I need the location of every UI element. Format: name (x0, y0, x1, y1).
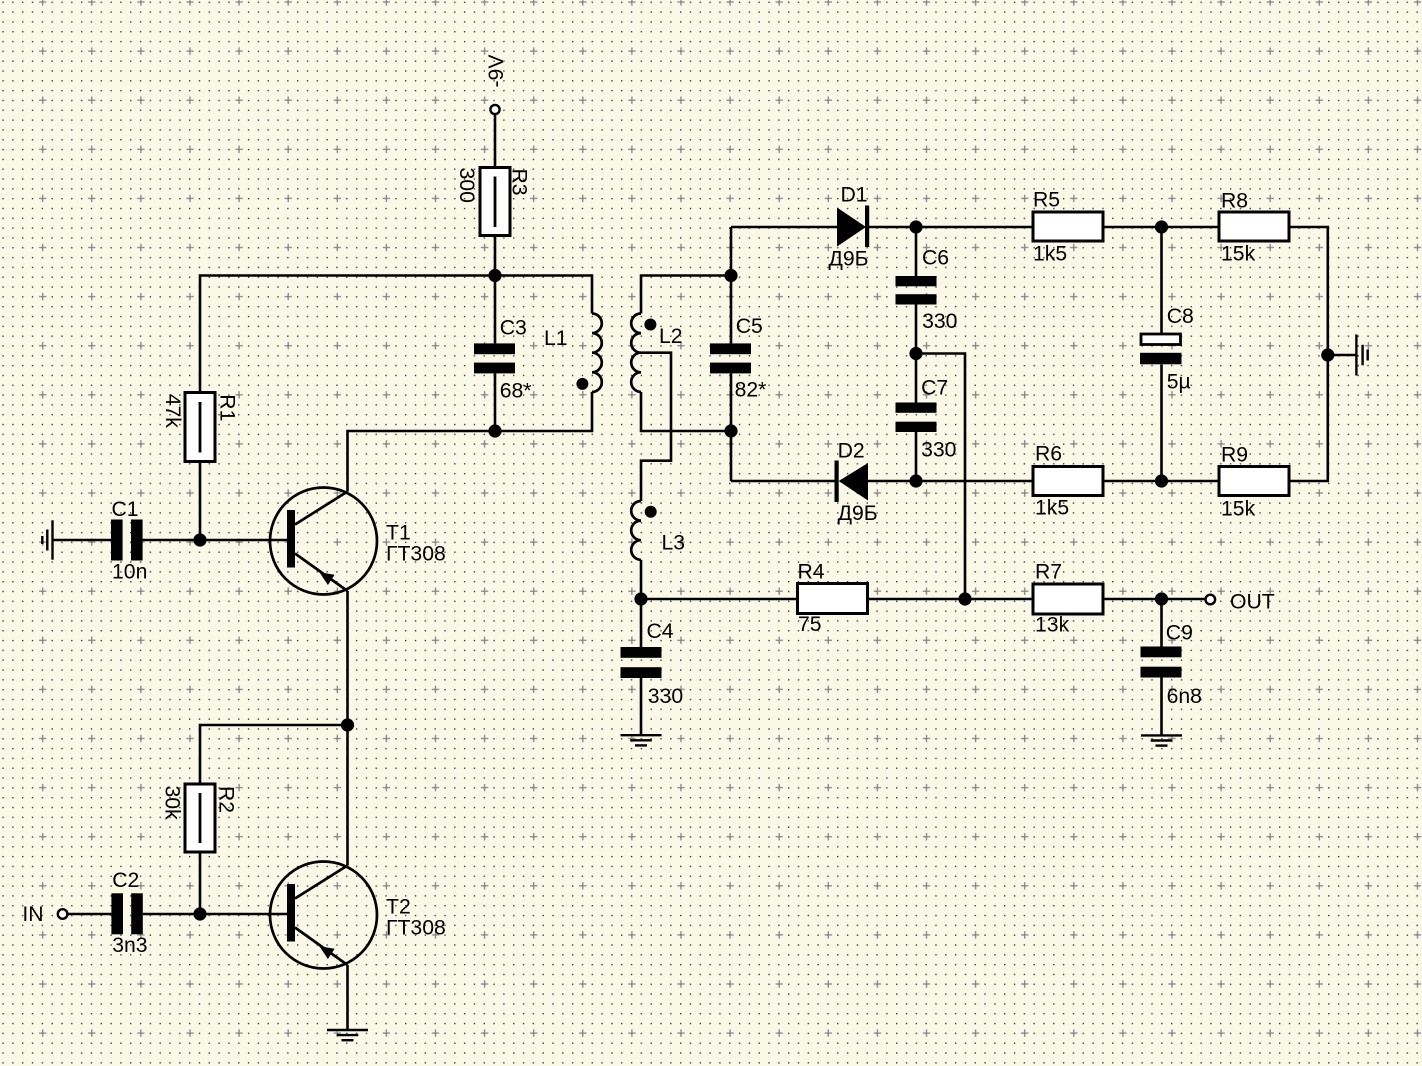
node R7/C9 junction (1155, 592, 1168, 605)
wire R6 to R9 (1103, 480, 1219, 483)
svg-text:OUT: OUT (1230, 590, 1275, 613)
wire R1 to base node (199, 462, 202, 541)
node D1/C6 junction (909, 220, 922, 233)
svg-text:R3: R3 (508, 169, 531, 196)
wire C6 to C7 node (915, 305, 918, 403)
svg-text:1k5: 1k5 (1035, 497, 1069, 520)
node L3/C4/R4 junction (634, 592, 647, 605)
wire ground to C1 (53, 539, 112, 542)
power terminal -9V (485, 54, 508, 114)
svg-text:13k: 13k (1035, 614, 1070, 637)
wire R2 to base node (199, 852, 202, 914)
capacitor C7 (896, 403, 937, 433)
wire L1 bottom to rail (495, 392, 592, 431)
wire C5 column D1 to D2 (730, 227, 733, 481)
wire C3 bottom to rail (494, 373, 497, 431)
svg-text:R8: R8 (1221, 190, 1248, 213)
svg-text:C6: C6 (922, 247, 949, 270)
svg-text:L1: L1 (544, 327, 568, 350)
svg-text:75: 75 (798, 613, 822, 636)
svg-text:R6: R6 (1035, 443, 1062, 466)
wire C9 column (1160, 599, 1163, 647)
svg-text:C9: C9 (1166, 622, 1193, 645)
wire R5 to R8 (1103, 226, 1219, 229)
wire T1 emitter down (346, 591, 349, 866)
svg-text:R4: R4 (798, 561, 825, 584)
resistor R5 (1033, 212, 1103, 241)
node C2/R2 junction (193, 907, 206, 920)
resistor R4 (798, 584, 868, 614)
wire R9 up to right junction (1289, 355, 1328, 481)
svg-text:6n8: 6n8 (1167, 685, 1202, 708)
svg-text:1k5: 1k5 (1033, 243, 1067, 266)
node C1/R1 junction (193, 533, 206, 546)
svg-text:R2: R2 (215, 786, 238, 813)
wire R7 to OUT (1103, 598, 1206, 601)
svg-text:330: 330 (648, 685, 683, 708)
svg-text:L2: L2 (659, 325, 683, 348)
node D2/C7 junction (909, 474, 922, 487)
svg-text:IN: IN (22, 903, 43, 926)
transistor T1 (270, 488, 377, 595)
node junction C5 bottom (724, 424, 737, 437)
wire junction to ground (1328, 354, 1357, 357)
resistor R7 (1033, 584, 1103, 614)
svg-text:R9: R9 (1221, 444, 1248, 467)
terminal OUT (1206, 590, 1275, 613)
wire L2 bottom to rail node (641, 392, 731, 431)
wire C2 to T2 base (143, 913, 287, 916)
capacitor C8 (1140, 334, 1182, 364)
wire C7 to D2 row (915, 432, 918, 481)
svg-text:T1: T1 (386, 521, 411, 544)
resistor R3 (480, 168, 510, 236)
svg-text:30k: 30k (161, 786, 184, 821)
ground right (1356, 335, 1367, 376)
wire junction to C6 (915, 227, 918, 276)
wire L2 top to node (641, 276, 731, 314)
resistor R2 (185, 784, 215, 852)
ground at T2 emitter (327, 1030, 368, 1040)
resistor R8 (1219, 212, 1289, 241)
svg-text:ГТ308: ГТ308 (386, 917, 446, 940)
node C6/C7 junction (909, 347, 922, 360)
svg-text:68*: 68* (500, 380, 532, 403)
svg-text:C4: C4 (647, 620, 674, 643)
node junction C5 top (724, 269, 737, 282)
svg-text:T2: T2 (386, 895, 411, 918)
wire C5 top to D1 (731, 226, 837, 229)
svg-text:L3: L3 (662, 532, 686, 555)
diode D1 (837, 206, 869, 248)
svg-text:ГТ308: ГТ308 (386, 543, 446, 566)
svg-text:330: 330 (922, 310, 957, 333)
ground at C4 (621, 735, 662, 745)
wire R4 row left (641, 598, 798, 601)
inductor L3 (631, 501, 641, 560)
transistor T2 (270, 862, 377, 969)
wire R4 to R7 (868, 598, 1033, 601)
ground at C9 (1141, 735, 1182, 745)
resistor R6 (1033, 467, 1103, 496)
svg-text:C7: C7 (921, 376, 948, 399)
ground at C1 (42, 520, 52, 559)
inductor L2 (631, 314, 641, 392)
node R5/C8 junction (1155, 220, 1168, 233)
wire R3 to C3 (494, 236, 497, 344)
svg-text:C2: C2 (112, 869, 139, 892)
wire rail to L1 top (495, 276, 592, 314)
capacitor C9 (1141, 647, 1182, 678)
phase dot L1 (576, 378, 588, 390)
wire C8 column (1160, 227, 1163, 481)
wire -9V to R3 (494, 114, 497, 167)
svg-text:D1: D1 (841, 184, 868, 207)
wire C9 to ground (1160, 678, 1163, 736)
capacitor C2 (111, 893, 142, 934)
svg-text:Д9Б: Д9Б (829, 248, 869, 271)
wire D2 to R6 (868, 480, 1033, 483)
node R6/C8 junction (1155, 474, 1168, 487)
wire L3 to R4 row (640, 560, 643, 599)
wire T2 emitter to ground (346, 965, 349, 1030)
wire IN to C2 (68, 913, 112, 916)
wire R8 to right edge down (1289, 227, 1328, 355)
svg-text:C3: C3 (500, 317, 527, 340)
svg-text:Д9Б: Д9Б (838, 502, 878, 525)
svg-text:C8: C8 (1167, 305, 1194, 328)
capacitor C1 (111, 520, 143, 561)
wire T1 collector up to rail (348, 431, 496, 492)
svg-text:5µ: 5µ (1167, 370, 1191, 393)
node emitter/R2 junction (341, 718, 354, 731)
svg-text:15k: 15k (1221, 243, 1256, 266)
capacitor C6 (896, 276, 937, 305)
inductor L1 (592, 314, 602, 392)
svg-text:300: 300 (455, 168, 478, 203)
wire C4 to ground (640, 678, 643, 735)
wire node to C4 (640, 599, 643, 647)
wire junction to R4 link column (916, 354, 965, 600)
node junction R3/C3/rails (488, 269, 501, 282)
svg-text:47k: 47k (161, 394, 184, 429)
svg-text:C1: C1 (112, 498, 139, 521)
svg-text:10n: 10n (112, 561, 147, 584)
terminal IN (22, 903, 67, 926)
svg-text:R7: R7 (1035, 561, 1062, 584)
svg-text:82*: 82* (735, 378, 767, 401)
wire C1 to T1 base (143, 539, 287, 542)
svg-text:R5: R5 (1033, 189, 1060, 212)
capacitor C4 (621, 647, 662, 678)
svg-text:15k: 15k (1221, 498, 1256, 521)
wire junction to R2 (200, 725, 348, 784)
node junction C3/rail (488, 424, 501, 437)
resistor R1 (185, 393, 215, 462)
svg-text:330: 330 (921, 439, 956, 462)
svg-text:C5: C5 (736, 315, 763, 338)
wire C5 bottom to D2 (731, 480, 835, 483)
resistor R9 (1219, 467, 1289, 496)
node right ground junction (1321, 348, 1334, 361)
wire D1 to R5 (869, 226, 1033, 229)
wire L2 tap to L3 (641, 353, 671, 501)
diode D2 (835, 461, 869, 503)
phase dot L3 (645, 506, 657, 518)
phase dot L2 (644, 319, 656, 331)
capacitor C5 (710, 343, 751, 373)
svg-text:R1: R1 (215, 394, 238, 421)
svg-text:-9V: -9V (485, 54, 508, 88)
svg-text:3n3: 3n3 (112, 934, 147, 957)
svg-text:D2: D2 (838, 439, 865, 462)
wire rail to R1 (200, 276, 495, 393)
capacitor C3 (474, 343, 515, 373)
node R4/link junction (958, 592, 971, 605)
